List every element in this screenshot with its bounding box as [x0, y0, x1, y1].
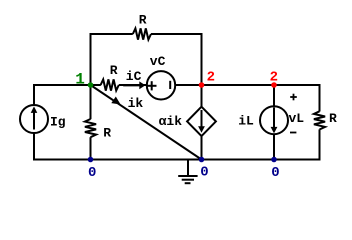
wire bottom rail	[33, 159, 321, 161]
current source iL (circle)	[260, 106, 288, 134]
wire right resistor down to bottom rail	[319, 129, 321, 160]
wire node 1 to middle resistor	[91, 84, 101, 86]
wire middle resistor to vC	[119, 84, 146, 86]
current source iL arrow	[271, 108, 278, 134]
wire vC to node 2	[176, 84, 202, 86]
wire node 1 down to left resistor	[90, 85, 92, 119]
wire second node 2 to right edge	[274, 84, 321, 86]
svg-text:iC: iC	[126, 69, 142, 84]
svg-text:R: R	[110, 63, 118, 78]
svg-text:R: R	[103, 126, 111, 141]
current source Ig arrow	[31, 106, 38, 129]
dependent current source alpha-ik (diamond)	[187, 107, 216, 136]
resistor R vertical at node 1 column (body)	[85, 119, 96, 137]
wire diamond down to bottom node	[201, 136, 203, 160]
svg-text:2: 2	[207, 69, 215, 85]
wire second node 2 down to iL	[273, 85, 275, 106]
svg-text:iL: iL	[238, 114, 254, 129]
minus sign of vL	[290, 132, 296, 134]
plus sign of vL	[290, 94, 297, 101]
svg-text:ik: ik	[128, 96, 144, 111]
svg-text:0: 0	[88, 165, 96, 181]
ground symbol	[178, 160, 197, 184]
svg-text:0: 0	[200, 165, 208, 181]
current arrow iC on wire	[123, 81, 145, 89]
resistor R top (body)	[133, 28, 151, 39]
wire diagonal ik from node 1 to bottom node	[91, 85, 202, 160]
svg-text:1: 1	[75, 71, 85, 89]
wire main row: left edge to node 1	[34, 84, 91, 86]
svg-text:Ig: Ig	[50, 115, 66, 130]
wire right edge down to right resistor	[319, 84, 321, 112]
vC plus sign	[147, 81, 157, 90]
svg-text:vC: vC	[150, 54, 166, 69]
resistor R vertical at right edge (body)	[314, 111, 325, 129]
resistor R horizontal between node 1 and vC (body)	[101, 79, 119, 90]
node 0 junction dot (center)	[199, 157, 205, 163]
current arrow ik head on diagonal	[111, 97, 120, 105]
dependent source arrow	[198, 110, 205, 133]
node 1 junction dot	[88, 82, 94, 88]
wire top-left vertical from node 1 up	[90, 33, 92, 85]
wire top rail right segment	[151, 33, 203, 35]
node 2 junction dot (right)	[271, 82, 277, 88]
node 0 junction dot (right)	[271, 157, 277, 163]
vC minus bar	[169, 81, 171, 89]
current source Ig (circle)	[20, 105, 48, 133]
svg-text:0: 0	[271, 165, 279, 181]
wire left edge vertical bottom lead	[33, 134, 35, 161]
wire node 2 to second node 2	[202, 84, 275, 86]
wire top-right vertical down to node 2	[201, 33, 203, 85]
wire iL down to bottom rail	[273, 135, 275, 160]
svg-text:R: R	[139, 13, 147, 28]
wire top rail left segment	[90, 33, 133, 35]
node 0 junction dot (left)	[88, 157, 94, 163]
voltage source vC (circle)	[147, 71, 175, 99]
wire left edge vertical top lead	[33, 84, 35, 105]
wire node 2 down to diamond	[201, 85, 203, 108]
node 2 junction dot (left)	[199, 82, 205, 88]
svg-text:2: 2	[270, 69, 278, 85]
svg-text:vL: vL	[289, 111, 305, 126]
wire left resistor down to bottom rail	[90, 137, 92, 160]
svg-text:αik: αik	[159, 114, 183, 129]
svg-text:R: R	[329, 111, 337, 126]
